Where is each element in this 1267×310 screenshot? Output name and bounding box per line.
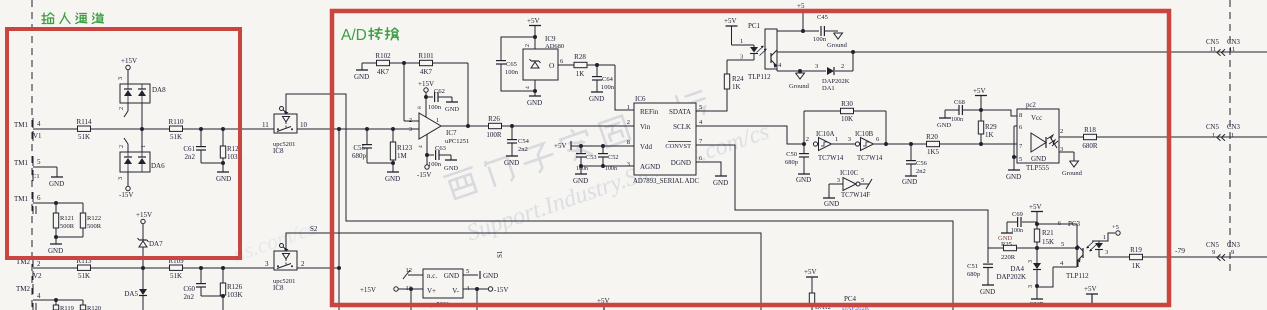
clamp diode pack DA8 with +15V — [117, 57, 166, 129]
svg-text:500R: 500R — [87, 223, 102, 230]
svg-text:DGND: DGND — [671, 159, 691, 167]
PC4 optocoupler remnant with +5V — [804, 268, 870, 310]
svg-text:8: 8 — [417, 106, 423, 109]
svg-text:GND: GND — [937, 122, 951, 129]
svg-text:O: O — [549, 61, 555, 70]
wire channel2 switch output — [297, 267, 339, 269]
resistor R25 220R on CONVST line — [988, 241, 1077, 261]
PC2 +5V supply rail — [973, 87, 987, 144]
svg-text:IC9: IC9 — [545, 35, 556, 43]
sheet boundary dashed line left — [31, 0, 33, 310]
resistor R113 51K — [77, 257, 92, 280]
svg-text:103K: 103K — [227, 291, 243, 299]
svg-text:GND: GND — [354, 73, 369, 81]
svg-text:-15V: -15V — [494, 286, 508, 294]
svg-text:2n2: 2n2 — [916, 168, 926, 175]
svg-text:1: 1 — [740, 38, 743, 45]
svg-text:3: 3 — [1105, 249, 1108, 256]
svg-text:C54: C54 — [518, 138, 530, 145]
resistor R127 103K with GND — [216, 129, 243, 183]
connector CN5/CN3 pin 9 net -79 — [1175, 242, 1240, 261]
svg-text:+5V: +5V — [804, 268, 817, 276]
zener DA7 to +15V — [136, 211, 163, 268]
svg-text:R30: R30 — [841, 100, 853, 108]
svg-text:GND: GND — [980, 288, 995, 296]
svg-text:IC10B: IC10B — [855, 131, 874, 138]
junctions on V1 wire — [140, 127, 225, 131]
svg-text:CN3: CN3 — [1227, 39, 1240, 46]
svg-text:R122: R122 — [87, 215, 101, 222]
resistor R126 103K — [220, 268, 242, 310]
wire control net S1 — [286, 94, 953, 310]
green title A/D转换 — [341, 27, 398, 44]
PC3 pin1 to +5 — [1099, 224, 1120, 241]
wire mux out to op-amp — [297, 128, 419, 130]
wire between inverters — [832, 143, 855, 145]
svg-text:S1: S1 — [496, 250, 504, 258]
svg-text:8: 8 — [627, 139, 630, 146]
svg-text:C62: C62 — [434, 88, 445, 95]
resistor R123 1M with GND — [385, 127, 413, 183]
svg-text:C50: C50 — [786, 151, 797, 158]
svg-text:1K5: 1K5 — [927, 148, 940, 156]
svg-text:Ground: Ground — [1062, 170, 1083, 177]
svg-text:TLP112: TLP112 — [748, 73, 771, 81]
svg-text:Ground: Ground — [789, 83, 810, 90]
wire SCLK to schmitt chain — [696, 126, 804, 144]
svg-text:GND: GND — [385, 175, 400, 183]
svg-text:CN5: CN5 — [1206, 242, 1219, 249]
svg-text:4K7: 4K7 — [377, 68, 390, 76]
svg-text:+5V: +5V — [724, 17, 737, 25]
PC2 pin3 to Ground — [1059, 146, 1083, 177]
svg-text:GND: GND — [445, 106, 459, 113]
svg-text:12: 12 — [406, 267, 413, 274]
svg-text:GND: GND — [527, 99, 542, 107]
svg-text:4: 4 — [525, 86, 531, 89]
svg-text:pc2: pc2 — [1026, 102, 1036, 109]
svg-text:100n: 100n — [576, 166, 588, 172]
wire control net S2 — [286, 233, 761, 310]
svg-text:100n: 100n — [505, 69, 519, 76]
wire to PC2 pin 8 — [981, 110, 1022, 119]
svg-text:3: 3 — [740, 54, 743, 61]
svg-text:680p: 680p — [967, 271, 980, 278]
resistor R18 680R output to CN — [1059, 126, 1267, 150]
svg-text:GND: GND — [796, 176, 811, 184]
svg-text:n.c.: n.c. — [427, 272, 437, 280]
svg-text:TC7W14: TC7W14 — [818, 155, 844, 162]
svg-text:51K: 51K — [170, 133, 182, 141]
svg-text:REFin: REFin — [640, 108, 659, 116]
capacitor C65 100n — [496, 37, 535, 91]
svg-text:R24: R24 — [732, 75, 744, 83]
svg-text:-15V: -15V — [417, 171, 431, 179]
svg-text:GND: GND — [824, 200, 839, 208]
svg-text:DA5: DA5 — [124, 290, 138, 298]
svg-text:R20: R20 — [926, 133, 938, 141]
svg-text:1K: 1K — [985, 131, 994, 139]
wire op-amp output to ADC Vin — [441, 125, 634, 127]
optocoupler PC1 TLP112 — [724, 17, 777, 81]
power stub +5V bottom — [597, 297, 610, 310]
red annotation box A/D conversion — [332, 11, 1169, 305]
svg-text:3: 3 — [409, 126, 412, 133]
svg-text:3: 3 — [1028, 260, 1034, 263]
reference IC9 AD680 — [523, 17, 564, 107]
capacitor C55 680p — [352, 127, 393, 163]
capacitor C51 680p — [967, 248, 995, 296]
resistor R26 100R — [486, 115, 502, 139]
svg-text:R18: R18 — [1084, 126, 1096, 134]
svg-text:TC7W14: TC7W14 — [857, 155, 883, 162]
svg-text:11: 11 — [1210, 46, 1216, 53]
svg-text:TM1: TM1 — [14, 159, 29, 167]
svg-text:TM1: TM1 — [14, 195, 29, 203]
svg-text:2: 2 — [1060, 128, 1063, 135]
optocoupler PC2 TLP555 — [1017, 102, 1059, 172]
svg-text:680R: 680R — [1082, 142, 1098, 150]
svg-text:100n: 100n — [813, 36, 827, 43]
ADC IC6 AD7893 — [627, 95, 703, 185]
connector CN5/CN3 pin 1 — [1206, 124, 1240, 141]
svg-text:C53: C53 — [586, 154, 597, 161]
svg-text:2: 2 — [118, 107, 125, 110]
svg-text:Ground: Ground — [827, 42, 848, 49]
svg-text:100n: 100n — [428, 161, 442, 168]
svg-text:+5V: +5V — [554, 142, 567, 150]
svg-text:10: 10 — [300, 121, 308, 129]
svg-text:3: 3 — [815, 63, 818, 70]
svg-text:IC10C: IC10C — [840, 170, 859, 177]
svg-text:R121: R121 — [60, 215, 74, 222]
svg-text:V1: V1 — [33, 132, 42, 140]
svg-text:V-: V- — [452, 287, 459, 295]
svg-text:2: 2 — [841, 63, 844, 70]
svg-text:500R: 500R — [60, 223, 75, 230]
svg-text:C64: C64 — [602, 76, 614, 83]
svg-text:5: 5 — [699, 104, 702, 111]
svg-text:100n: 100n — [601, 84, 615, 91]
svg-text:9: 9 — [1231, 249, 1234, 256]
wire V1 to mux — [33, 128, 274, 130]
svg-text:1K: 1K — [732, 83, 741, 91]
svg-text:11: 11 — [262, 121, 269, 129]
svg-text:AGND: AGND — [640, 163, 660, 171]
svg-text:3: 3 — [265, 260, 269, 268]
connector TM1 pin 6 with divider R121 R122 500R — [14, 192, 102, 255]
svg-text:2: 2 — [806, 136, 809, 143]
svg-text:Vin: Vin — [640, 123, 651, 131]
svg-text:1: 1 — [835, 136, 838, 143]
svg-text:CONVST: CONVST — [665, 143, 691, 150]
svg-text:1K: 1K — [576, 70, 585, 78]
svg-text:5: 5 — [1019, 156, 1022, 163]
inverter IC10A TC7W14 — [806, 131, 844, 162]
diode DA5 — [124, 268, 147, 310]
svg-text:C68: C68 — [954, 99, 965, 106]
svg-text:2: 2 — [627, 119, 630, 126]
svg-text:GND: GND — [444, 165, 458, 172]
inverter IC10C TC7W14F unused — [823, 170, 872, 208]
capacitor C68 100n — [937, 99, 981, 129]
svg-text:CN3: CN3 — [1227, 124, 1240, 131]
svg-text:-79: -79 — [1175, 246, 1185, 255]
svg-text:3: 3 — [1028, 285, 1034, 288]
svg-text:TM1: TM1 — [14, 121, 29, 129]
svg-text:R21: R21 — [1042, 229, 1054, 237]
svg-text:15K: 15K — [1042, 238, 1054, 246]
op-amp IC7 uPC1251 — [409, 106, 469, 148]
svg-text:R102: R102 — [375, 52, 391, 60]
svg-text:2: 2 — [301, 260, 305, 268]
svg-text:1: 1 — [1231, 132, 1234, 139]
svg-text:CN5: CN5 — [1206, 39, 1219, 46]
svg-text:SCLK: SCLK — [673, 123, 691, 131]
svg-text:GND: GND — [573, 177, 588, 185]
svg-text:GND: GND — [1031, 155, 1046, 163]
svg-text:5: 5 — [1061, 241, 1064, 248]
net label S2 — [310, 225, 318, 233]
PC3 +5V with R21 15K and C69 100n — [998, 203, 1054, 250]
svg-text:V+: V+ — [427, 287, 436, 295]
resistor R109 51K — [168, 257, 184, 280]
feedback network R102 R101 4K7 — [354, 52, 470, 128]
svg-text:6: 6 — [37, 194, 41, 202]
resistor R110 51K — [169, 118, 184, 141]
svg-text:SDATA: SDATA — [669, 108, 691, 116]
svg-text:2n2: 2n2 — [518, 146, 528, 153]
svg-text:uPC1251: uPC1251 — [445, 138, 469, 145]
svg-text:S2: S2 — [310, 225, 318, 233]
op-amp -15V supply with C63 100n — [417, 134, 458, 179]
svg-text:11: 11 — [1229, 46, 1235, 53]
svg-text:+15V: +15V — [121, 57, 137, 65]
svg-text:Vdd: Vdd — [640, 143, 653, 151]
resistor R28 1K and wire to REFin — [558, 53, 634, 110]
svg-text:C63: C63 — [435, 145, 446, 152]
wire SDATA to R24 — [696, 89, 727, 111]
+5V rail with C53 C52 100n — [554, 141, 634, 185]
svg-text:A/D: A/D — [341, 27, 367, 44]
svg-text:TLP112: TLP112 — [1066, 272, 1089, 280]
svg-text:GND: GND — [1006, 173, 1021, 181]
svg-text:680p: 680p — [352, 152, 367, 160]
resistor R20 1K5 — [926, 133, 939, 156]
svg-text:1K: 1K — [1132, 262, 1141, 270]
svg-text:DA6: DA6 — [151, 162, 165, 170]
power switch IC8 upc5201 supply pins — [360, 267, 508, 310]
svg-text:TM2: TM2 — [16, 285, 31, 293]
PC1 pin4 with Ground and diode DA1 DAP202K — [777, 52, 853, 92]
svg-text:4: 4 — [37, 292, 41, 300]
svg-text:IC10A: IC10A — [816, 131, 835, 138]
clamp diode pack DA6 with -15V — [117, 129, 165, 199]
svg-text:GND: GND — [504, 159, 519, 167]
svg-text:R110: R110 — [169, 118, 184, 126]
connector TM2 pin 2 net V2 — [16, 258, 42, 280]
svg-text:DAP202K: DAP202K — [996, 273, 1026, 281]
svg-text:2n2: 2n2 — [184, 293, 195, 301]
svg-text:DA1: DA1 — [822, 85, 835, 92]
svg-text:51K: 51K — [170, 272, 182, 280]
svg-text:R29: R29 — [985, 123, 997, 131]
svg-text:GND: GND — [589, 95, 604, 103]
svg-text:2: 2 — [118, 145, 125, 148]
svg-text:GND: GND — [216, 175, 231, 183]
power stub +5V right bottom — [1084, 285, 1098, 306]
connector TM2 pin 4 with R119 R120 — [16, 284, 101, 310]
svg-text:TC7W14F: TC7W14F — [841, 192, 870, 199]
svg-text:R28: R28 — [574, 53, 586, 61]
svg-text:4K7: 4K7 — [420, 68, 433, 76]
svg-text:C65: C65 — [506, 61, 517, 68]
svg-text:IC8: IC8 — [273, 147, 284, 155]
svg-text:TLP555: TLP555 — [1026, 164, 1049, 172]
svg-text:IC7: IC7 — [446, 129, 457, 137]
svg-text:1: 1 — [436, 117, 439, 124]
svg-text:V2: V2 — [33, 272, 42, 280]
svg-text:C45: C45 — [817, 14, 828, 21]
svg-text:2n2: 2n2 — [185, 153, 196, 161]
svg-text:DA8: DA8 — [152, 86, 166, 94]
capacitor C50 680p — [785, 142, 811, 184]
svg-text:C60: C60 — [183, 285, 195, 293]
resistor R29 1K — [978, 121, 997, 139]
svg-text:100n: 100n — [1011, 228, 1023, 234]
svg-text:GND: GND — [49, 180, 64, 188]
wire CONVST to PC3 — [696, 145, 988, 248]
svg-text:+5V: +5V — [527, 17, 540, 25]
svg-text:+15V: +15V — [136, 211, 152, 219]
capacitor C45 100n with +5 and Ground — [777, 2, 848, 49]
svg-text:IC6: IC6 — [635, 95, 646, 103]
analog switch IC8 upc5201 channel 1 pins 11/10 — [262, 107, 308, 156]
svg-text:GND: GND — [713, 179, 728, 187]
junction and tie wire from channel 2 switch — [337, 127, 341, 310]
capacitor C60 2n2 — [183, 268, 223, 301]
svg-text:3: 3 — [837, 177, 840, 184]
svg-text:1: 1 — [627, 104, 630, 111]
svg-text:220R: 220R — [1001, 254, 1016, 261]
svg-text:5: 5 — [37, 158, 41, 166]
svg-text:R126: R126 — [227, 283, 243, 291]
sheet boundary dashed line right — [1229, 0, 1231, 272]
green title 输入通道 — [42, 13, 103, 24]
svg-text:2: 2 — [37, 260, 41, 268]
svg-text:5: 5 — [466, 268, 469, 275]
svg-text:+5V: +5V — [973, 87, 986, 95]
svg-text:2: 2 — [525, 44, 531, 47]
connector CN5/CN3 pin 11 — [1206, 39, 1240, 56]
wire V2 to mux — [33, 267, 274, 269]
svg-text:1: 1 — [1212, 132, 1215, 139]
svg-text:C61: C61 — [183, 145, 195, 153]
svg-text:9: 9 — [1212, 249, 1215, 256]
resistor R19 1K output to CN — [1099, 246, 1267, 270]
svg-text:51K: 51K — [78, 272, 90, 280]
svg-text:100n: 100n — [951, 117, 963, 123]
connector TM1 pin 5 net C1 to GND — [14, 156, 64, 188]
capacitor C61 2n2 — [183, 129, 223, 163]
op-amp +15V supply with C62 100n — [418, 80, 459, 117]
svg-text:2: 2 — [409, 117, 412, 124]
wire PC1 pin5 data return to CN — [777, 50, 1267, 54]
svg-text:5: 5 — [861, 177, 864, 184]
svg-text:AD680: AD680 — [545, 43, 564, 50]
svg-text:C51: C51 — [967, 263, 978, 270]
svg-text:R123: R123 — [397, 144, 413, 152]
svg-text:100R: 100R — [486, 131, 502, 139]
svg-text:10K: 10K — [841, 115, 853, 123]
svg-text:1M: 1M — [397, 152, 408, 160]
capacitor C54 2n2 with GND — [504, 124, 530, 167]
diode DA4 DAP202K — [996, 248, 1044, 309]
svg-text:R119: R119 — [60, 305, 74, 310]
net label S1 — [496, 250, 504, 258]
PC2 pins 6,5 tied to GND — [1006, 126, 1021, 181]
red annotation box input channel — [7, 29, 240, 258]
inverter IC10B TC7W14 — [848, 131, 883, 162]
svg-text:Vcc: Vcc — [1031, 114, 1042, 122]
svg-text:IC8: IC8 — [273, 284, 284, 292]
svg-text:C69: C69 — [1012, 211, 1023, 218]
svg-text:3: 3 — [627, 161, 630, 168]
wire oscillator output to PC2 — [874, 142, 1017, 146]
resistor R114 51K — [77, 118, 92, 141]
svg-text:GND: GND — [483, 272, 498, 280]
svg-text:+5V: +5V — [1029, 203, 1042, 211]
svg-text:CN5: CN5 — [1206, 124, 1219, 131]
analog switch IC8 upc5201 channel 2 pins 3/2 — [265, 244, 305, 293]
connector TM1 pin 4 net V1 — [14, 118, 42, 141]
svg-text:CN3: CN3 — [1227, 242, 1240, 249]
svg-text:PC1: PC1 — [748, 22, 761, 30]
svg-text:680p: 680p — [785, 159, 798, 166]
watermark forum text — [229, 86, 772, 267]
svg-text:3: 3 — [848, 136, 851, 143]
svg-text:-15V: -15V — [119, 191, 133, 199]
svg-text:C52: C52 — [608, 154, 619, 161]
PC3 pin4 return wire — [1037, 260, 1077, 287]
svg-text:4: 4 — [418, 145, 424, 148]
svg-text:DA7: DA7 — [149, 240, 163, 248]
svg-text:100n: 100n — [605, 166, 617, 172]
svg-text:3: 3 — [117, 77, 124, 80]
svg-text:+15V: +15V — [418, 80, 434, 88]
junctions on V2 wire — [141, 266, 225, 270]
svg-text:1: 1 — [1103, 234, 1106, 241]
DGND to ground — [696, 162, 728, 187]
svg-text:+15V: +15V — [360, 286, 376, 294]
svg-text:4: 4 — [37, 120, 41, 128]
svg-text:51K: 51K — [78, 133, 90, 141]
svg-text:8: 8 — [1019, 112, 1022, 119]
svg-text:R101: R101 — [418, 52, 434, 60]
svg-text:DAP202K: DAP202K — [822, 78, 850, 85]
optocoupler PC3 TLP112 — [1037, 220, 1103, 280]
svg-text:C56: C56 — [916, 160, 928, 167]
svg-text:PC4: PC4 — [844, 295, 857, 303]
svg-text:3: 3 — [117, 177, 124, 180]
svg-text:GND: GND — [444, 272, 459, 280]
svg-text:100n: 100n — [428, 104, 442, 111]
svg-text:R26: R26 — [488, 115, 500, 123]
capacitor C64 100n — [589, 65, 615, 103]
capacitor C56 2n2 — [902, 144, 928, 186]
svg-text:AD7893_SERIAL ADC: AD7893_SERIAL ADC — [633, 178, 699, 185]
svg-text:GND: GND — [48, 247, 63, 255]
